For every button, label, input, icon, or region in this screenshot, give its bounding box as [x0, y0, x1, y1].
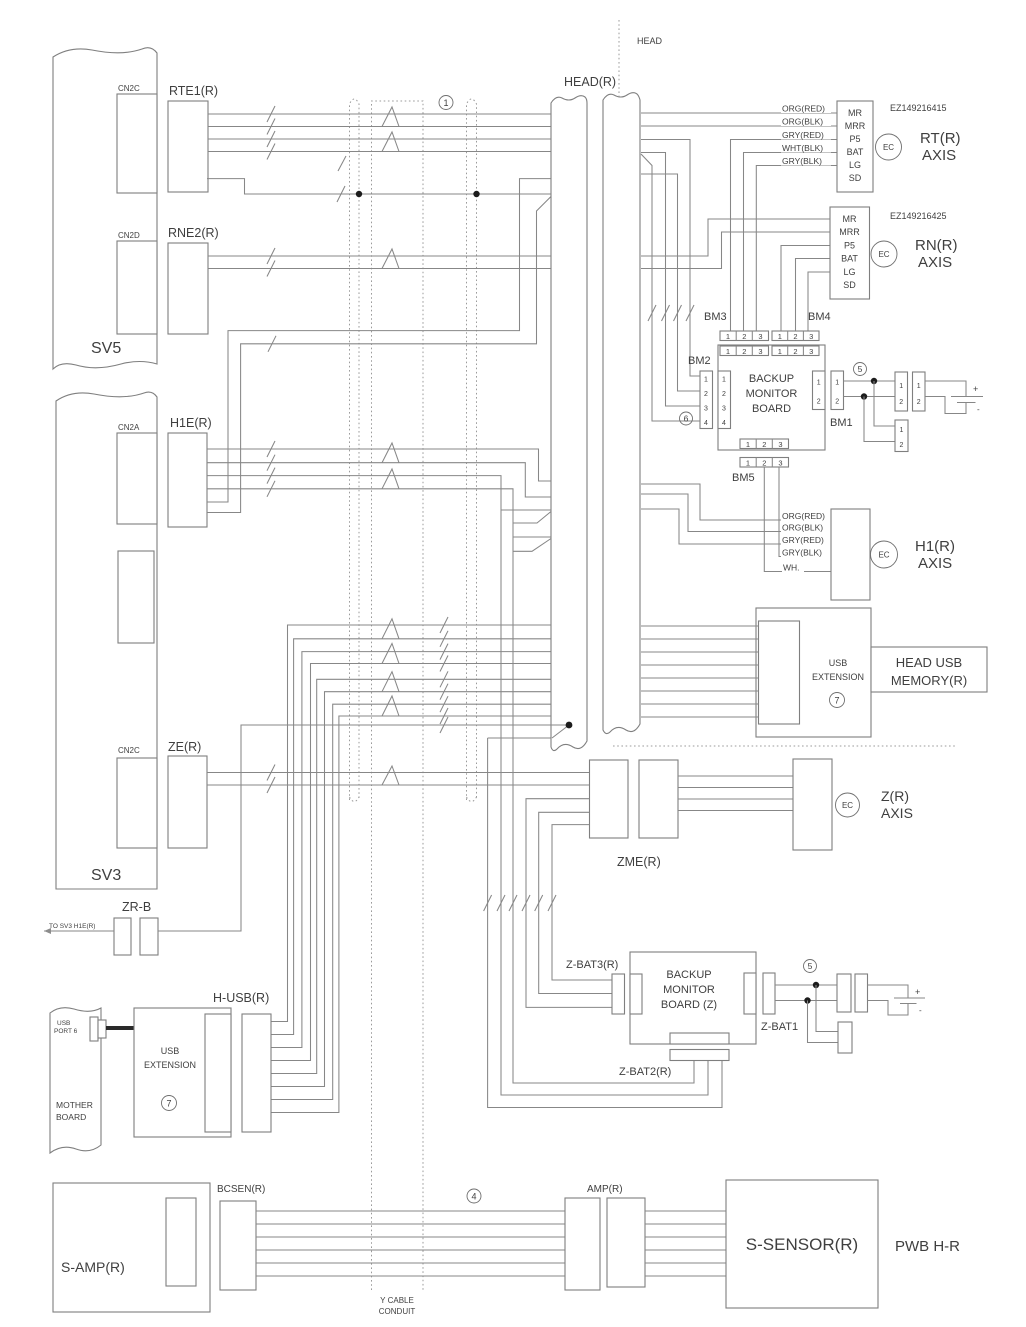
- battery RT backup: [925, 381, 983, 414]
- wire Z-BAT1 pin1 to battery connectors: [775, 984, 837, 986]
- wire RN BAT to BM4: [796, 259, 831, 332]
- wire RTE pin4 drop to BM2: [641, 153, 700, 407]
- svg-text:1: 1: [726, 347, 730, 356]
- svg-text:BM3: BM3: [704, 311, 727, 323]
- connector BCSEN(R): [217, 1184, 265, 1290]
- junction dot Z pin2: [804, 997, 810, 1003]
- circled number 5 (Z): [804, 960, 817, 973]
- chevron marks on bundle rows: [382, 619, 399, 716]
- svg-text:GRY(RED): GRY(RED): [782, 535, 824, 545]
- svg-text:1: 1: [704, 377, 708, 384]
- encoder box H1(R): [831, 509, 870, 600]
- label RT(R) AXIS: [920, 130, 961, 164]
- wire RTE shield drop to BM2: [641, 154, 700, 421]
- wire loop RNE2 to H1E (A): [207, 179, 551, 502]
- svg-text:2: 2: [762, 440, 766, 449]
- connector CN2A on SV3: [117, 423, 157, 524]
- label BM3: [704, 311, 727, 323]
- svg-text:2: 2: [900, 442, 904, 449]
- wire ZME to board Z pin3: [552, 825, 612, 980]
- connector Z-BAT3 on board: [630, 974, 642, 1014]
- svg-text:4: 4: [704, 420, 708, 427]
- svg-text:EXTENSION: EXTENSION: [812, 672, 864, 682]
- battery connector lower (Z): [838, 1022, 852, 1053]
- svg-text:LG: LG: [849, 160, 861, 170]
- svg-text:BM1: BM1: [830, 417, 853, 429]
- svg-text:RN(R): RN(R): [915, 237, 958, 254]
- slash marks on Z risers: [484, 895, 556, 911]
- board SV3 (torn top): [56, 392, 157, 889]
- svg-text:ORG(RED): ORG(RED): [782, 511, 825, 521]
- svg-text:BACKUP: BACKUP: [666, 969, 711, 981]
- wire H1 GRY(BLK) from BM5: [779, 467, 831, 557]
- label Z-BAT3(R): [566, 959, 618, 971]
- connector H-USB(R): [213, 991, 271, 1132]
- Y cable conduit B (dashed rectangle): [372, 101, 424, 1290]
- svg-text:EC: EC: [878, 551, 889, 560]
- svg-text:CN2C: CN2C: [118, 84, 140, 93]
- connector CN2C on SV5: [117, 84, 157, 193]
- wire Z pin2 branch to lower connector: [808, 1001, 839, 1043]
- junction dot on shield at conduit A: [356, 191, 362, 197]
- slash marks on H1E wires: [267, 441, 275, 497]
- bar taps from H1E verticals: [501, 510, 551, 551]
- chevron marks on H1E wires: [382, 443, 399, 489]
- junction dot at duct base: [566, 722, 573, 729]
- slash marks on RTE1 wires: [267, 106, 275, 160]
- board SV5 (torn edges): [53, 48, 157, 369]
- wire ORG(BLK) to RT axis: [641, 125, 837, 127]
- svg-text:2: 2: [704, 391, 708, 398]
- svg-text:2: 2: [793, 332, 797, 341]
- board top strip right: [772, 346, 819, 356]
- wire RTE1 pin1: [208, 113, 551, 115]
- battery Z backup: [868, 985, 926, 1015]
- svg-text:BCSEN(R): BCSEN(R): [217, 1184, 265, 1195]
- svg-text:ORG(BLK): ORG(BLK): [782, 117, 823, 127]
- wire RTE pin3 drop to BM2: [641, 140, 700, 377]
- label ZME(R): [617, 855, 661, 869]
- EC circle RT: [876, 134, 902, 160]
- svg-text:EC: EC: [878, 250, 889, 259]
- wire riser to Z-BAT2 (from head): [488, 738, 722, 1108]
- svg-text:Z-BAT3(R): Z-BAT3(R): [566, 959, 618, 971]
- box S-SENSOR(R): [726, 1180, 878, 1308]
- HEAD duct right bar (torn ends): [603, 93, 640, 734]
- svg-text:BOARD: BOARD: [56, 1112, 86, 1122]
- backup monitor board box: [718, 345, 825, 450]
- svg-text:WHT(BLK): WHT(BLK): [782, 143, 823, 153]
- svg-text:BACKUP: BACKUP: [749, 373, 794, 385]
- label H1(R) AXIS: [915, 538, 955, 572]
- svg-text:3: 3: [778, 459, 782, 468]
- svg-text:AXIS: AXIS: [918, 254, 952, 271]
- wire ZE pin1: [207, 772, 590, 774]
- wire Z pin1 branch to lower connector: [816, 985, 838, 1032]
- wires BCSEN to AMP (6): [256, 1211, 565, 1276]
- wire labels for H1 axis: [781, 511, 831, 573]
- USB extension box (head): [756, 608, 871, 737]
- slash marks on RNE2 wires: [267, 248, 275, 277]
- junction dot BM1 pin1: [871, 378, 877, 384]
- svg-text:1: 1: [778, 347, 782, 356]
- connector strip BM5: [740, 458, 789, 468]
- wire RN LG to BM4: [808, 272, 830, 331]
- svg-text:2: 2: [762, 459, 766, 468]
- wire RNE2 pin2: [208, 268, 551, 270]
- svg-text:GRY(BLK): GRY(BLK): [782, 156, 822, 166]
- wire RNE2 pin1: [208, 255, 551, 257]
- label Z(R) AXIS: [881, 788, 913, 821]
- wire H1 WH from BM5: [764, 467, 831, 572]
- svg-text:CONDUIT: CONDUIT: [379, 1307, 416, 1316]
- svg-text:ZME(R): ZME(R): [617, 855, 661, 869]
- svg-text:ORG(BLK): ORG(BLK): [782, 523, 823, 533]
- svg-text:2: 2: [793, 347, 797, 356]
- connector BM1 outer: [831, 371, 844, 410]
- unlabeled connector on SV3: [118, 551, 154, 643]
- svg-text:PWB H-R: PWB H-R: [895, 1238, 960, 1255]
- wire RTE1 pin4: [208, 151, 551, 153]
- svg-text:2: 2: [722, 391, 726, 398]
- label Z-BAT1: [761, 1021, 798, 1033]
- connector BM2 on board: [718, 371, 731, 429]
- svg-text:MOTHER: MOTHER: [56, 1100, 93, 1110]
- svg-text:WH.: WH.: [783, 563, 800, 573]
- svg-text:2: 2: [742, 332, 746, 341]
- svg-text:4: 4: [722, 420, 726, 427]
- svg-text:-: -: [919, 1006, 922, 1015]
- svg-text:5: 5: [858, 364, 863, 374]
- svg-text:MRR: MRR: [845, 121, 866, 131]
- svg-text:USB: USB: [161, 1046, 180, 1056]
- chevron mark on ZE wire: [382, 766, 399, 785]
- svg-text:BM2: BM2: [688, 355, 711, 367]
- svg-text:H-USB(R): H-USB(R): [213, 991, 269, 1005]
- svg-text:LG: LG: [843, 267, 855, 277]
- wire labels for RT axis: [781, 103, 831, 166]
- circled number 7 (bottom): [162, 1096, 177, 1111]
- connector CN2D on SV5: [117, 231, 157, 334]
- label BM4: [808, 311, 831, 323]
- svg-text:1: 1: [443, 98, 448, 108]
- svg-text:BAT: BAT: [841, 254, 858, 264]
- connector strip on board bottom: [740, 439, 789, 449]
- svg-text:MR: MR: [843, 214, 857, 224]
- svg-text:1: 1: [835, 380, 839, 387]
- svg-text:-: -: [977, 405, 980, 414]
- svg-text:BOARD (Z): BOARD (Z): [661, 999, 717, 1011]
- connector RTE1(R): [168, 84, 218, 192]
- svg-text:7: 7: [166, 1099, 171, 1109]
- svg-text:BM5: BM5: [732, 472, 755, 484]
- HEAD duct left bar (torn ends): [551, 96, 587, 751]
- connector RNE2(R): [168, 226, 219, 334]
- svg-text:3: 3: [809, 347, 813, 356]
- svg-text:1: 1: [726, 332, 730, 341]
- connector CN2C on SV3: [117, 746, 157, 848]
- svg-text:3: 3: [722, 406, 726, 413]
- EC circle RN: [871, 241, 897, 267]
- connector strip under board Z: [670, 1033, 729, 1044]
- svg-text:MONITOR: MONITOR: [663, 984, 715, 996]
- HEAD reference dashed line: [619, 20, 663, 97]
- svg-text:1: 1: [722, 377, 726, 384]
- wire RTE1 shield: [207, 156, 551, 202]
- svg-text:HEAD USB: HEAD USB: [896, 655, 962, 670]
- wire ORG(RED) to RT axis: [641, 112, 837, 114]
- wire ZR-B riser: [158, 725, 569, 931]
- svg-text:2: 2: [835, 399, 839, 406]
- svg-text:3: 3: [778, 440, 782, 449]
- svg-text:2: 2: [817, 399, 821, 406]
- svg-text:BAT: BAT: [847, 147, 864, 157]
- slash marks on BM2 drop wires: [648, 305, 694, 321]
- svg-text:H1(R): H1(R): [915, 538, 955, 555]
- svg-text:4: 4: [471, 1192, 476, 1202]
- wire ZE pin2: [207, 784, 590, 786]
- encoder box RN(R): [830, 207, 870, 299]
- svg-text:2: 2: [899, 399, 903, 406]
- svg-text:GRY(RED): GRY(RED): [782, 130, 824, 140]
- svg-text:H1E(R): H1E(R): [170, 416, 212, 430]
- svg-text:BM4: BM4: [808, 311, 831, 323]
- svg-text:S-SENSOR(R): S-SENSOR(R): [746, 1235, 858, 1254]
- wires AMP to S-SENSOR (6): [645, 1211, 726, 1276]
- wire H1E pin1: [207, 449, 551, 481]
- svg-text:AXIS: AXIS: [922, 147, 956, 164]
- svg-text:ORG(RED): ORG(RED): [782, 104, 825, 114]
- svg-text:+: +: [973, 384, 978, 394]
- svg-text:P5: P5: [849, 134, 860, 144]
- svg-text:SD: SD: [843, 280, 856, 290]
- svg-text:AMP(R): AMP(R): [587, 1184, 623, 1195]
- svg-text:CN2D: CN2D: [118, 231, 140, 240]
- slash marks on ZE wires: [267, 765, 275, 794]
- battery connector pair (Z): [837, 974, 868, 1012]
- wire BM1 pin2 to battery connectors: [844, 396, 896, 398]
- svg-text:3: 3: [758, 347, 762, 356]
- svg-text:EC: EC: [883, 143, 894, 152]
- label EZ149216415: [890, 103, 947, 113]
- label RN(R) AXIS: [915, 237, 958, 271]
- svg-text:HEAD(R): HEAD(R): [564, 75, 616, 89]
- svg-text:SV5: SV5: [91, 340, 121, 357]
- wire BM1 pin1 to battery connectors: [844, 380, 896, 382]
- svg-text:1: 1: [746, 440, 750, 449]
- wire RTE1 pin3: [208, 138, 551, 140]
- wire ZR-B row inside duct: [551, 724, 569, 726]
- battery connector pair upper: [895, 372, 925, 411]
- diagonal into duct base: [552, 725, 569, 738]
- cable conduit pair C (dotted): [467, 99, 477, 802]
- EC circle Z: [836, 793, 860, 817]
- junction dot Z pin1: [813, 982, 819, 988]
- connector BM2 outer: [700, 371, 713, 429]
- encoder box RT(R): [837, 101, 873, 192]
- svg-text:1: 1: [917, 383, 921, 390]
- wire ZME to board Z pin1: [526, 799, 612, 1008]
- EC circle H1: [871, 541, 898, 568]
- connector Z axis: [793, 759, 832, 850]
- svg-text:6: 6: [684, 414, 689, 424]
- svg-text:RT(R): RT(R): [920, 130, 961, 147]
- svg-text:EC: EC: [842, 801, 853, 810]
- svg-text:ZE(R): ZE(R): [168, 740, 201, 754]
- wire RN P5 to BM4: [781, 246, 830, 332]
- connector ZME(R) left: [590, 760, 629, 838]
- svg-text:5: 5: [808, 961, 813, 971]
- connector Z-BAT1 on board: [744, 973, 756, 1014]
- wire BM1 pin1 branch to lower connector: [874, 381, 895, 426]
- label Z-BAT2(R): [619, 1066, 671, 1078]
- label BM2: [688, 355, 711, 367]
- svg-text:EXTENSION: EXTENSION: [144, 1060, 196, 1070]
- svg-text:P5: P5: [844, 241, 855, 251]
- junction dot BM1 pin2: [861, 393, 867, 399]
- svg-text:HEAD: HEAD: [637, 36, 663, 46]
- connector BM1 on board: [813, 371, 826, 410]
- svg-text:SV3: SV3: [91, 867, 121, 884]
- wire RNE2 pin2 to RN MRR: [641, 232, 830, 269]
- label BM1: [830, 417, 853, 429]
- svg-text:EZ149216425: EZ149216425: [890, 211, 947, 221]
- USB port connector on mother board: [90, 1017, 106, 1041]
- svg-text:USB: USB: [829, 658, 848, 668]
- wire GRY(RED) RT to BM3: [731, 140, 838, 332]
- wire H1E pin4 (long run down): [207, 489, 694, 1083]
- connector ZME(R) right: [639, 760, 678, 838]
- svg-text:1: 1: [746, 459, 750, 468]
- svg-text:7: 7: [834, 696, 839, 706]
- circled number 6: [680, 412, 693, 425]
- dotted separator line: [613, 745, 956, 747]
- box HEAD USB MEMORY(R): [871, 647, 987, 692]
- USB cable (thick): [106, 1026, 135, 1030]
- svg-text:2: 2: [742, 347, 746, 356]
- svg-text:2: 2: [917, 399, 921, 406]
- svg-text:1: 1: [778, 332, 782, 341]
- svg-text:Z-BAT1: Z-BAT1: [761, 1021, 798, 1033]
- svg-text:PORT 6: PORT 6: [54, 1028, 78, 1035]
- H-USB cable bundle (8 wires from H-USB(R) up to HEAD duct): [271, 625, 551, 1113]
- connector strip BM4: [772, 331, 819, 341]
- circled number 1: [439, 96, 453, 110]
- connector Z-BAT3 outer: [612, 974, 625, 1014]
- wires duct to USB extension (8): [641, 626, 759, 717]
- box S-AMP(R): [53, 1183, 210, 1312]
- svg-text:AXIS: AXIS: [881, 805, 913, 821]
- battery connector lower: [895, 420, 908, 452]
- wire H1 ORG(RED) from duct: [641, 484, 831, 520]
- svg-text:RTE1(R): RTE1(R): [169, 84, 218, 98]
- circled number 5: [854, 363, 867, 376]
- svg-text:3: 3: [704, 406, 708, 413]
- svg-text:MRR: MRR: [839, 227, 860, 237]
- wires ZME to Z axis connector: [678, 776, 793, 811]
- svg-text:1: 1: [817, 380, 821, 387]
- wire WHT(BLK) RT to BM3: [744, 153, 838, 332]
- slash marks on bundle rows: [440, 617, 448, 733]
- svg-text:1: 1: [899, 383, 903, 390]
- connector ZR-B: [114, 900, 158, 955]
- svg-text:S-AMP(R): S-AMP(R): [61, 1259, 125, 1275]
- connector Z-BAT1 outer: [763, 973, 775, 1014]
- USB extension box (bottom): [134, 1008, 231, 1137]
- svg-text:EZ149216415: EZ149216415: [890, 103, 947, 113]
- svg-text:RNE2(R): RNE2(R): [168, 226, 219, 240]
- junction dot on shield at conduit C: [473, 191, 479, 197]
- label EZ149216425: [890, 211, 947, 221]
- connector AMP(R) pair: [565, 1184, 645, 1290]
- label HEAD(R): [564, 75, 616, 89]
- connector H1E(R): [168, 416, 212, 527]
- svg-text:+: +: [915, 987, 920, 997]
- svg-text:CN2C: CN2C: [118, 746, 140, 755]
- wire H1 ORG(BLK) from duct: [641, 494, 831, 532]
- connector strip Z-BAT2: [670, 1050, 729, 1061]
- mother board (torn edges): [50, 1008, 101, 1153]
- wire RTE1 pin2: [208, 126, 551, 128]
- cable conduit pair A (dotted): [350, 99, 360, 802]
- backup monitor board (Z) box: [630, 952, 756, 1044]
- wire ZME to board Z pin2: [539, 812, 612, 993]
- board top strip left: [720, 346, 769, 356]
- svg-text:SD: SD: [849, 173, 862, 183]
- connector ZE(R): [168, 740, 207, 848]
- svg-text:ZR-B: ZR-B: [122, 900, 151, 914]
- svg-text:MEMORY(R): MEMORY(R): [891, 673, 967, 688]
- wire RNE2 pin1 to RN MR: [641, 219, 830, 256]
- chevron mark on RNE2 wire: [382, 249, 399, 269]
- svg-text:CN2A: CN2A: [118, 423, 140, 432]
- wire Z-BAT1 pin2 to battery connectors: [775, 1000, 837, 1002]
- svg-text:Z-BAT2(R): Z-BAT2(R): [619, 1066, 671, 1078]
- svg-text:AXIS: AXIS: [918, 555, 952, 572]
- svg-text:3: 3: [758, 332, 762, 341]
- svg-text:GRY(BLK): GRY(BLK): [782, 548, 822, 558]
- label Y CABLE CONDUIT: [379, 1296, 416, 1316]
- arrow TO SV3 H1E(R): [44, 923, 114, 934]
- svg-text:Y CABLE: Y CABLE: [380, 1296, 414, 1305]
- svg-text:1: 1: [900, 427, 904, 434]
- connector strip BM3: [720, 331, 769, 341]
- svg-text:USB: USB: [57, 1020, 70, 1027]
- svg-text:MONITOR: MONITOR: [746, 388, 798, 400]
- wire H1E pin2: [207, 463, 551, 497]
- svg-text:TO SV3 H1E(R): TO SV3 H1E(R): [49, 923, 95, 930]
- label PWB H-R: [895, 1238, 960, 1255]
- wire H1E pin3 (long run down): [207, 476, 708, 1095]
- circled number 4: [467, 1189, 481, 1203]
- svg-text:3: 3: [809, 332, 813, 341]
- wire loop RNE2 to H1E (B): [207, 197, 551, 513]
- wire H1 GRY(RED) from duct: [641, 509, 831, 544]
- svg-text:BOARD: BOARD: [752, 403, 791, 415]
- wire RTE spare drop to BM2: [641, 174, 700, 391]
- wire BM1 pin2 branch to lower connector: [864, 397, 895, 442]
- wire GRY(BLK) RT to BM3: [756, 166, 837, 332]
- svg-text:Z(R): Z(R): [881, 788, 909, 804]
- chevron marks on RTE1 wires: [382, 107, 399, 152]
- label BM5: [732, 472, 755, 484]
- circled number 7 (head): [830, 693, 845, 708]
- junction dot at head bar base: [488, 722, 573, 738]
- svg-text:MR: MR: [848, 108, 862, 118]
